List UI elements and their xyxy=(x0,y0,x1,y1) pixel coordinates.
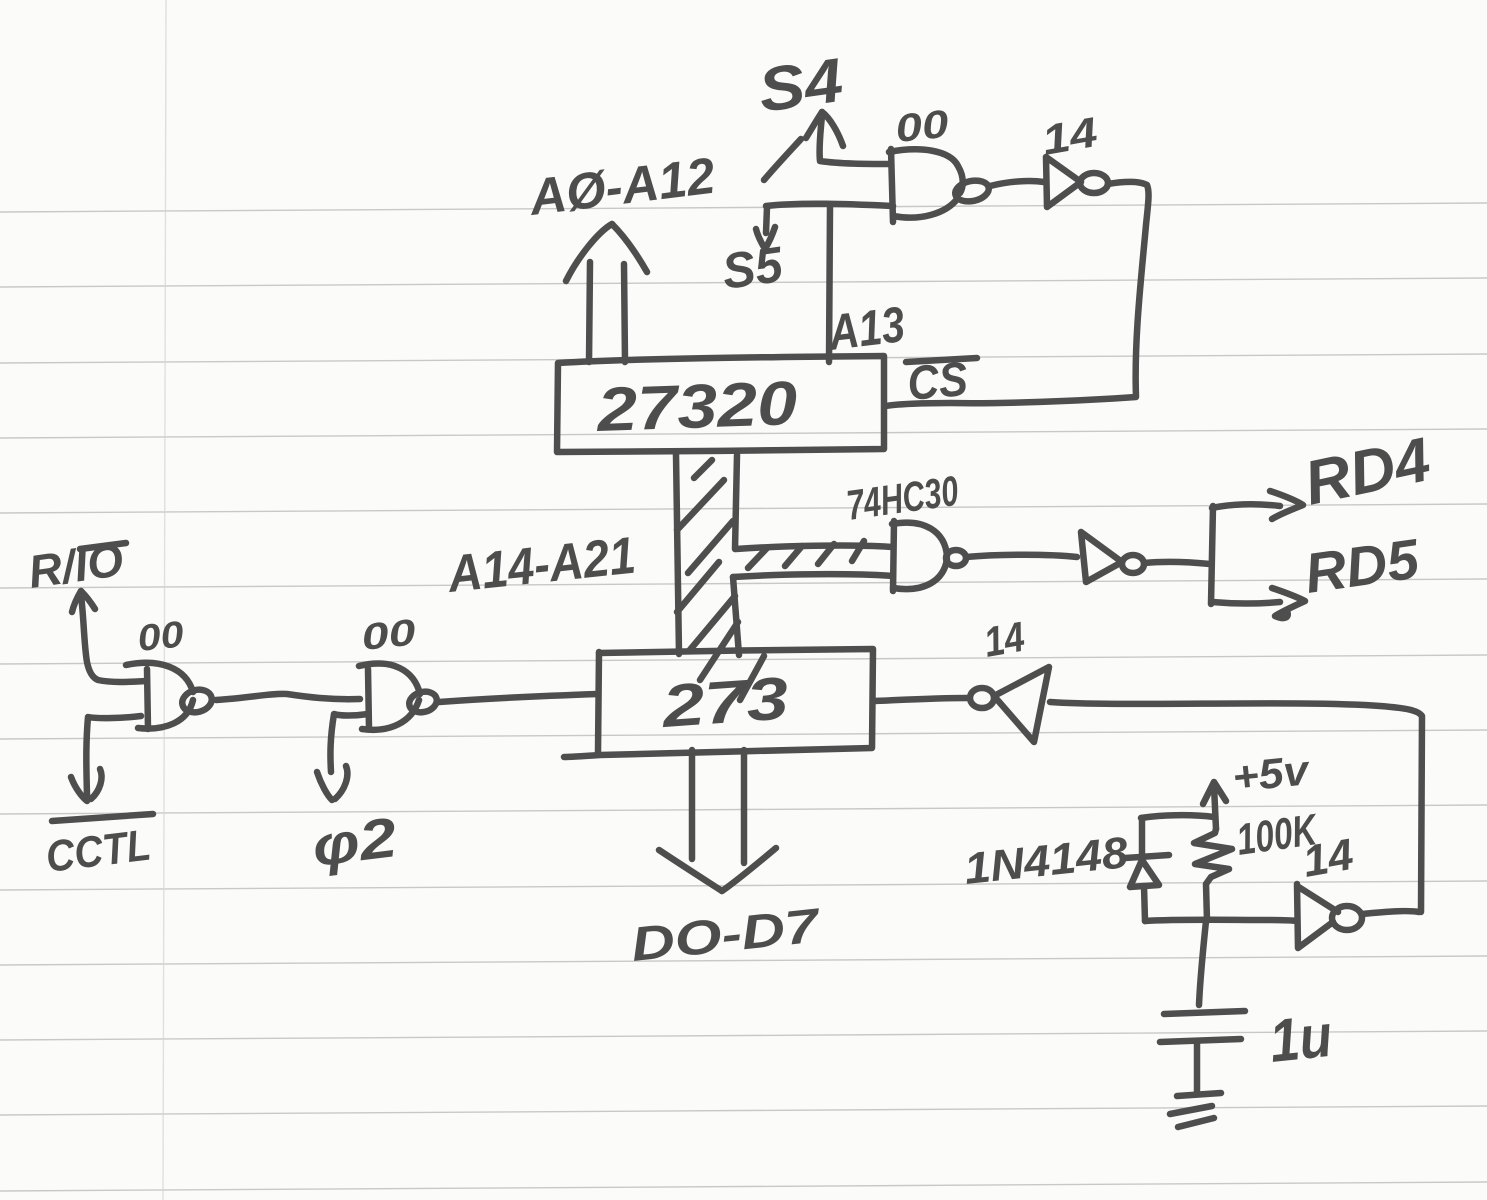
IC U1 27320 box xyxy=(557,356,884,452)
net RD4 label xyxy=(1299,425,1437,519)
inverter 14 (top) xyxy=(1046,157,1081,207)
svg-text:00: 00 xyxy=(360,611,419,657)
wire nand to inverter xyxy=(990,181,1044,186)
svg-text:273: 273 xyxy=(659,664,791,740)
svg-text:CS: CS xyxy=(905,353,969,411)
svg-text:00: 00 xyxy=(136,613,187,659)
bus D0-D7 arrow xyxy=(689,750,696,859)
svg-text:1u: 1u xyxy=(1266,1002,1335,1075)
wire nand1 to nand2 xyxy=(216,694,360,700)
net R/IO label xyxy=(25,533,127,598)
wire 74HC30 to inverter xyxy=(966,555,1077,557)
diode D1 1N4148 xyxy=(1125,855,1169,858)
net phi2 label xyxy=(309,805,400,878)
bus A14-A21 hatched vertical xyxy=(676,454,679,654)
inverter 14 (RD) xyxy=(1081,532,1122,582)
net CS label xyxy=(905,353,969,411)
svg-text:14: 14 xyxy=(1299,830,1357,887)
wire junction to capacitor xyxy=(1199,921,1206,1005)
wire junction to inverter input xyxy=(1145,920,1297,921)
wire CCTL drop xyxy=(86,716,141,795)
capacitor C1 label xyxy=(1266,1002,1335,1075)
bus A14-A21 label xyxy=(443,527,638,605)
inverter 14 (top) label xyxy=(1038,108,1100,164)
wire S4 arrow xyxy=(806,112,822,138)
wire RD bracket xyxy=(1211,506,1213,604)
power +5V arrow xyxy=(1203,782,1226,804)
inverter 14 (osc) label xyxy=(1299,830,1357,887)
nand gate 00 (mid) label xyxy=(360,611,419,657)
svg-text:S4: S4 xyxy=(754,46,847,126)
net RD5 label xyxy=(1301,527,1424,605)
resistor R1 100K xyxy=(1194,829,1232,921)
diode D1 branch wires xyxy=(1141,815,1214,818)
net CS label overline xyxy=(906,358,977,362)
bus D0-D7 label xyxy=(629,899,824,972)
bus A0-A12 arrow xyxy=(589,262,590,362)
net CCTL label xyxy=(43,820,153,881)
node S5 label xyxy=(719,236,787,300)
inverter 14 (273 clock, points left) xyxy=(970,688,994,708)
node S5 wire xyxy=(766,204,893,206)
svg-text:14: 14 xyxy=(980,613,1028,666)
net CCTL label overline xyxy=(52,814,153,821)
capacitor C1 plates xyxy=(1164,1011,1245,1014)
wire cap to ground xyxy=(1194,1042,1201,1092)
ground xyxy=(1177,1093,1221,1096)
diode D1 label xyxy=(962,828,1131,894)
svg-text:S5: S5 xyxy=(719,236,787,300)
wire 273 to inverter bubble xyxy=(874,698,968,701)
IC U2 273 label xyxy=(659,664,791,740)
svg-text:+5v: +5v xyxy=(1230,746,1313,801)
svg-text:27320: 27320 xyxy=(595,369,798,445)
power +5V label xyxy=(1230,746,1313,801)
wire inverter input from right xyxy=(1050,702,1422,912)
inverter 14 (273 clock) label xyxy=(980,613,1028,666)
wire phi2 drop xyxy=(330,714,368,772)
nand gate 00 (mid) xyxy=(368,669,369,729)
svg-text:φ2: φ2 xyxy=(309,805,400,878)
svg-text:A13: A13 xyxy=(824,296,908,361)
inverter 14 (osc) xyxy=(1297,884,1338,948)
nand gate 00 (top) label xyxy=(893,103,951,151)
nand gate 00 (left) xyxy=(147,669,148,729)
nand gate 00 (left) label xyxy=(136,613,187,659)
svg-text:00: 00 xyxy=(893,103,951,151)
IC U2 273 box xyxy=(564,649,873,757)
bus hatch marks xyxy=(694,460,712,478)
node A13 label xyxy=(824,296,908,361)
node S4 label xyxy=(754,46,847,126)
IC U1 27320 label xyxy=(595,369,798,445)
wire A13 xyxy=(829,207,830,362)
gate 74HC30 nand xyxy=(893,521,894,591)
wire inverter output to CS xyxy=(886,182,1149,406)
bus A0-A12 label xyxy=(524,147,718,226)
nand gate 00 (top) xyxy=(891,149,893,222)
gate 74HC30 label xyxy=(844,467,961,529)
wire nand2 to 273 xyxy=(439,694,598,702)
resistor R1 label xyxy=(1234,805,1322,865)
wire R/IO arrow xyxy=(72,591,81,612)
